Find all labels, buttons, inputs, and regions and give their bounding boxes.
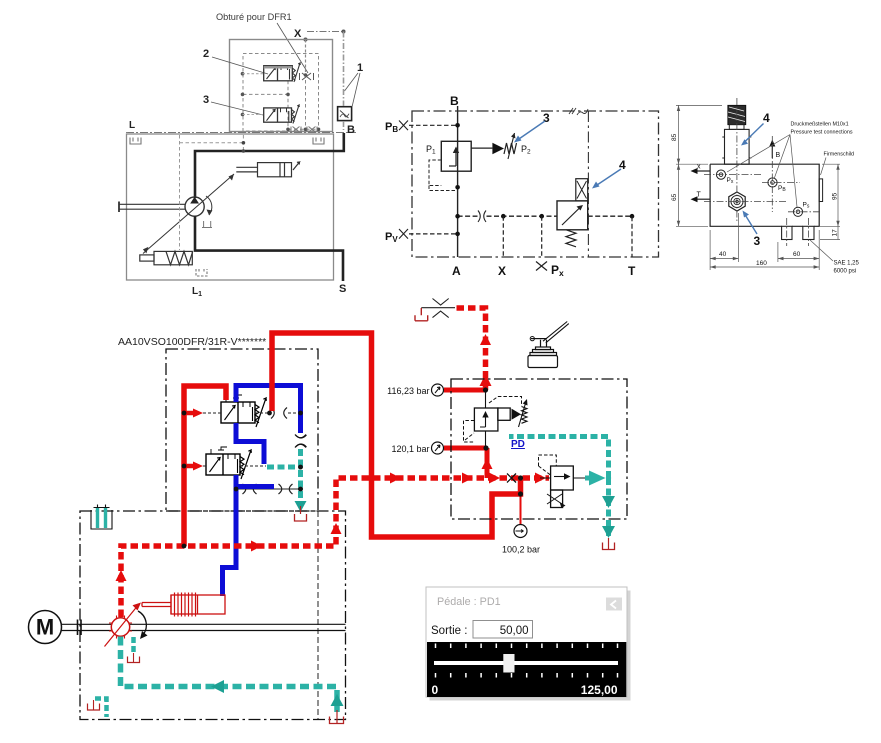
X drop wire xyxy=(502,216,504,257)
svg-text:L: L xyxy=(129,120,135,131)
bottom plug symbols xyxy=(291,127,317,133)
svg-text:PB: PB xyxy=(385,121,398,134)
B flow arrow xyxy=(771,145,773,158)
slider ticks top xyxy=(436,644,618,649)
teal FR drain xyxy=(267,465,301,470)
svg-text:Obturé pour DFR1: Obturé pour DFR1 xyxy=(216,12,292,22)
main housing block xyxy=(710,164,819,226)
junction dots colored circuit xyxy=(182,387,612,548)
blue leader arrow 3 xyxy=(516,121,545,141)
svg-text:85: 85 xyxy=(671,133,678,141)
port Ps circle xyxy=(793,207,802,216)
bottom orifice pair 1 xyxy=(243,484,257,494)
dimension 95 right xyxy=(820,164,840,226)
svg-text:120,1 bar: 120,1 bar xyxy=(391,444,429,454)
wire red pump riser dashed xyxy=(121,478,549,617)
housing box upper (valve block) xyxy=(230,40,333,132)
orifice symbols on DR out xyxy=(271,408,287,419)
SECTION-E widget panel xyxy=(426,587,631,701)
slider track xyxy=(434,661,618,665)
svg-text:2: 2 xyxy=(203,48,209,60)
svg-text:L1: L1 xyxy=(192,286,202,298)
svg-text:95: 95 xyxy=(832,192,839,200)
svg-text:Druckmeßstellen M10x1: Druckmeßstellen M10x1 xyxy=(791,122,849,128)
port 3 hex gland xyxy=(729,192,745,211)
flow arrows on red xyxy=(116,570,127,581)
wire red gauge3 stub xyxy=(520,494,522,524)
leader 3 xyxy=(211,102,263,115)
svg-text:T: T xyxy=(697,192,702,199)
leader line from note to plug xyxy=(277,23,308,73)
housing dash-dot frame xyxy=(412,111,659,257)
svg-text:B: B xyxy=(776,152,781,159)
drive shaft xyxy=(119,204,186,209)
Px plugged marker xyxy=(536,262,547,271)
dashed vertical x=288 xyxy=(287,81,289,130)
slider ticks bottom xyxy=(436,673,618,678)
tank symbol L xyxy=(130,138,141,145)
svg-text:Pressure test connections: Pressure test connections xyxy=(791,130,853,136)
svg-text:T: T xyxy=(628,264,636,278)
svg-text:1: 1 xyxy=(357,62,363,74)
svg-text:Pédale : PD1: Pédale : PD1 xyxy=(437,596,501,608)
drive unit dash-dot frame xyxy=(80,511,346,720)
housing box lower (pump) xyxy=(127,134,334,280)
valve 2 (upper pressure valve) xyxy=(264,63,301,82)
svg-text:17: 17 xyxy=(832,229,839,237)
blue leader arrow 4 xyxy=(594,169,621,187)
wire valve to pilot piston xyxy=(471,147,492,149)
bottom rail black xyxy=(236,488,301,490)
Px drop wire xyxy=(541,216,543,257)
pilot piston triangle xyxy=(492,143,504,154)
leaders to test ports xyxy=(727,135,797,208)
main line B-A xyxy=(457,106,459,257)
plugged marker PB xyxy=(399,121,408,131)
wire red big loop xyxy=(272,333,521,537)
dimension 65 left xyxy=(676,164,708,226)
svg-text:P1: P1 xyxy=(426,144,436,156)
port PB circle xyxy=(768,178,777,187)
A rail dashed xyxy=(458,215,632,217)
orifice redraw over teal xyxy=(295,435,306,448)
junction on box top xyxy=(304,38,308,42)
svg-text:4: 4 xyxy=(763,111,770,125)
svg-text:B: B xyxy=(347,124,355,136)
leaders for 1 xyxy=(345,73,361,107)
DR valve body xyxy=(221,395,266,427)
vertical orifice below blue xyxy=(296,435,307,447)
spring under valve 4 xyxy=(566,230,576,247)
tank under suction xyxy=(330,717,344,724)
wire blue bottom xyxy=(223,475,237,596)
suction filters teal xyxy=(98,507,106,528)
teal PD output xyxy=(589,471,606,486)
control block dash-dot frame xyxy=(451,379,627,519)
stroking cylinder xyxy=(236,162,299,177)
svg-text:A: A xyxy=(452,264,461,278)
wire red vent line dashed xyxy=(455,308,486,390)
wire blue bottom rail stub xyxy=(236,484,274,489)
svg-text:160: 160 xyxy=(756,260,767,267)
DR cartridge valve xyxy=(474,390,510,448)
svg-text:3: 3 xyxy=(754,234,761,248)
junction right xyxy=(342,30,346,34)
SECTION-B top-middle DFR valve schematic xyxy=(385,94,659,278)
long shaft line xyxy=(129,624,346,630)
wire red sense riser xyxy=(485,448,490,478)
motor M xyxy=(29,611,62,644)
teal drain down xyxy=(606,478,611,536)
valve cartridge body xyxy=(725,129,750,164)
tank symbol right top xyxy=(313,138,324,145)
junction PV xyxy=(455,232,460,237)
junction PB xyxy=(455,123,460,128)
pilot dashed box left of P1 xyxy=(429,160,441,186)
dash-dot border across y=132 xyxy=(126,132,356,134)
wire PV dashed xyxy=(409,233,458,235)
svg-text:65: 65 xyxy=(671,193,678,201)
DR pilot dashed xyxy=(464,397,522,443)
widget panel xyxy=(426,587,627,697)
FR valve body xyxy=(206,447,251,479)
tank symbol L1 dashed xyxy=(196,269,207,276)
mounting feet xyxy=(782,226,792,239)
svg-text:125,00: 125,00 xyxy=(581,683,618,697)
svg-text:3: 3 xyxy=(203,94,209,106)
PD reducing valve xyxy=(540,466,586,508)
dashed pilot frame around valves xyxy=(243,54,319,132)
red stub arrows to valves xyxy=(184,411,194,416)
arrow inside valve 4 xyxy=(562,207,581,226)
svg-text:Sortie :: Sortie : xyxy=(431,625,467,637)
rotation arc xyxy=(206,196,212,215)
svg-text:60: 60 xyxy=(793,251,801,258)
pump unit dash-dot frame xyxy=(166,349,318,511)
svg-text:X: X xyxy=(498,264,506,278)
wire X pilot down (gray dashed) xyxy=(305,40,307,73)
SECTION-D colored hydraulic circuit xyxy=(80,299,627,720)
B thick port line xyxy=(195,133,344,198)
bleed valve 4 body xyxy=(557,201,588,230)
svg-text:P2: P2 xyxy=(521,144,531,156)
suction thick line S xyxy=(195,216,343,281)
dimension 60 bottom xyxy=(778,230,819,270)
svg-text:X: X xyxy=(294,28,302,40)
spring P2 xyxy=(504,143,517,154)
plug symbol (obturé orifice) xyxy=(300,73,314,80)
section squiggle on top border xyxy=(569,108,588,115)
wire PB dashed xyxy=(409,124,458,126)
inner dash-dot vertical xyxy=(587,111,589,257)
centerlines dash-dot xyxy=(704,98,820,246)
pilot dashed wires xyxy=(198,413,297,466)
svg-text:S: S xyxy=(339,283,346,295)
dimension 85 left xyxy=(676,105,722,164)
inner dashed border xyxy=(317,511,319,719)
teal PD pilot loop xyxy=(509,437,609,479)
dashed stub to valve3 xyxy=(243,114,264,116)
variable displacement arrow xyxy=(143,174,234,254)
adjuster arrow over spring xyxy=(508,133,515,159)
bias spring unit xyxy=(140,251,193,264)
svg-text:SAE 1,25: SAE 1,25 xyxy=(834,261,860,267)
x flow arrow xyxy=(695,170,710,172)
wire blue mid Z xyxy=(236,423,264,464)
widget shadow xyxy=(430,591,631,701)
svg-text:Px: Px xyxy=(551,263,564,278)
dashed stub to valve2 xyxy=(243,73,264,75)
dashed bottom rail y=129.3 xyxy=(288,128,319,130)
svg-text:6000 psi: 6000 psi xyxy=(834,269,857,275)
DFR spool valve P1 xyxy=(441,141,471,171)
svg-text:40: 40 xyxy=(719,251,727,258)
control cylinder red xyxy=(105,593,226,647)
measuring cell above valve 4 xyxy=(576,179,588,201)
svg-text:B: B xyxy=(450,94,459,108)
plug knurled cap xyxy=(728,105,746,124)
dimension 160 bottom xyxy=(710,266,819,268)
wire blue top loop xyxy=(236,386,301,434)
svg-text:100,2 bar: 100,2 bar xyxy=(502,545,540,555)
pump port ticks xyxy=(109,616,132,639)
suction teal main xyxy=(121,637,338,713)
pilot junctions and stubs xyxy=(241,72,321,131)
dashed vertical x=305.5 lower xyxy=(305,80,307,131)
svg-text:PV: PV xyxy=(385,231,398,244)
pump circle red xyxy=(111,618,129,636)
corner drain teal xyxy=(95,699,107,718)
junction dots over teal xyxy=(298,465,303,470)
junctions on A rail xyxy=(455,214,460,219)
svg-text:Ps: Ps xyxy=(803,202,810,210)
pump main circle xyxy=(185,197,204,216)
T flow arrow xyxy=(695,198,710,200)
pilot dashed inside pump box xyxy=(179,135,181,250)
svg-text:PB: PB xyxy=(778,185,786,193)
spool arrow inside P1 xyxy=(455,150,457,167)
dashed rail y=94.4 xyxy=(243,93,288,95)
plug collar xyxy=(729,125,744,130)
name plate tab xyxy=(819,179,822,202)
wire red left rail xyxy=(184,386,226,546)
junction under P1 xyxy=(455,185,460,190)
tank corner xyxy=(88,704,100,711)
svg-text:0: 0 xyxy=(432,683,439,697)
svg-text:AA10VSO100DFR/31R-V*******: AA10VSO100DFR/31R-V******* xyxy=(118,336,266,348)
port line X->B dash-dot vertical xyxy=(343,32,345,131)
dimension 40 bottom xyxy=(710,213,738,270)
valve 3 (lower pressure valve) xyxy=(264,105,300,124)
bottom orifice pair 2 xyxy=(279,484,293,494)
svg-text:116,23 bar: 116,23 bar xyxy=(387,386,429,396)
SECTION-C top-right mechanical drawing xyxy=(671,98,860,275)
wire red gauge2 xyxy=(444,446,486,451)
svg-text:Firmenschild: Firmenschild xyxy=(824,152,855,158)
pilot dashed from box to line xyxy=(429,186,458,191)
T drop wire xyxy=(631,216,633,257)
plugged marker PV xyxy=(399,229,408,239)
component 1 (restrictor cartridge) xyxy=(338,107,352,121)
orifice on A rail xyxy=(478,211,486,222)
plugged X on red main xyxy=(507,474,516,483)
svg-text:M: M xyxy=(36,615,54,640)
svg-text:PD: PD xyxy=(511,439,525,450)
widget input field xyxy=(473,621,533,639)
rotation arrow black xyxy=(138,611,146,636)
coupling xyxy=(62,624,113,630)
wire red gauge1 xyxy=(444,388,486,393)
slider handle xyxy=(503,654,514,673)
leader 2 xyxy=(212,57,268,74)
case drain bracket xyxy=(202,221,212,228)
wire X dash-dot to right xyxy=(307,31,343,33)
pump flow triangle xyxy=(190,197,199,204)
widget slider panel xyxy=(427,642,626,697)
svg-text:3: 3 xyxy=(543,111,550,125)
widget close button xyxy=(606,598,622,611)
pump case drain teal short xyxy=(131,637,136,653)
svg-text:50,00: 50,00 xyxy=(500,625,529,637)
SECTION-A top-left pump schematic xyxy=(119,12,364,298)
svg-text:Px: Px xyxy=(727,177,734,185)
dimension 17 right xyxy=(820,226,840,239)
oil can icon xyxy=(528,322,569,368)
port Px circle xyxy=(716,170,725,179)
